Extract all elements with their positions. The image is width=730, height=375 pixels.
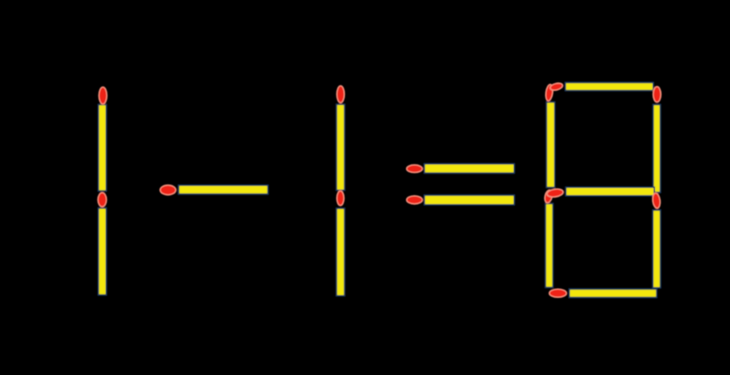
matchstick M3: minus sign horizontal match: [160, 185, 268, 195]
matchstick M6: equals sign upper horizontal match: [407, 164, 515, 173]
matchstick M9: digit 8 top horizontal match (segment A): [549, 82, 653, 92]
matchstick M14: digit 8 bottom horizontal match (segment D): [549, 289, 656, 298]
matchstick M8: digit 8 top-left vertical match (segment F): [545, 84, 555, 188]
matchstick M1: left digit 1, upper vertical match: [98, 87, 107, 191]
matchstick M5: right digit 1, lower vertical match: [336, 191, 344, 296]
matchstick M7: equals sign lower horizontal match: [407, 195, 515, 205]
matchstick M4: right digit 1, upper vertical match: [336, 86, 344, 191]
matchstick M11: digit 8 bottom-left vertical match (segment E): [543, 189, 553, 287]
matchstick M10: digit 8 top-right vertical match (segment B): [653, 87, 661, 193]
matchstick M12: digit 8 middle horizontal match (segment G): [546, 187, 654, 198]
matchstick M2: left digit 1, lower vertical match: [98, 193, 107, 295]
matchstick M13: digit 8 bottom-right vertical match (segment C): [652, 193, 661, 288]
